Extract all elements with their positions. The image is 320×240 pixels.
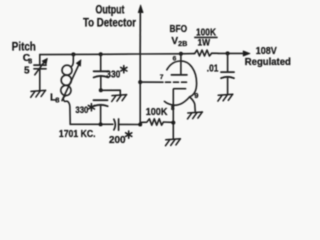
svg-text:To Detector: To Detector [83,16,136,30]
svg-text:8: 8 [55,95,59,104]
svg-text:9: 9 [194,91,198,100]
svg-text:1W: 1W [198,37,211,48]
svg-text:6: 6 [173,56,177,63]
label 100K (grid leak) [146,107,168,118]
arrow output to detector [139,13,141,55]
node junction plate/top rail [179,52,183,56]
label 330* upper [106,69,120,80]
svg-text:BFO: BFO [170,24,188,35]
capacitor .01 (bypass) [227,53,229,71]
ground (divider midpoint) [112,95,127,102]
label BFO [170,24,188,35]
node junction cathode/grid leak [171,121,175,125]
label 108V [256,46,277,57]
ground (cathode) [166,139,181,146]
wire divider midpoint to ground [101,90,121,95]
label 5 [24,66,30,77]
label pin 7 [160,74,164,81]
resistor 100K 1W (plate supply) [194,50,218,56]
svg-text:7: 7 [160,74,164,81]
wire grid to tube [140,81,163,83]
ground (.01 bypass) [218,94,233,101]
label L8 [50,92,59,104]
svg-text:2B: 2B [178,39,187,48]
label pin 9 [194,91,198,100]
svg-text:5: 5 [24,66,30,77]
svg-text:330: 330 [106,69,120,80]
svg-text:1701 KC.: 1701 KC. [59,129,96,140]
wire top rail node A [40,54,194,55]
svg-text:100K: 100K [146,107,168,118]
label pin 6 [173,56,177,63]
arrow 108V [243,51,250,56]
capacitor 330* lower (divider bottom) [94,99,108,101]
cathode (pin 8) [173,89,185,139]
svg-text:200: 200 [109,135,126,146]
node junction divider bottom [99,122,103,126]
svg-text:.01: .01 [207,64,219,75]
svg-text:8: 8 [171,105,175,112]
label V2B [171,36,187,48]
label .01 [207,64,219,75]
label To Detector [83,16,136,30]
svg-text:Regulated: Regulated [245,57,291,68]
node junction L8/top rail [71,52,75,56]
svg-text:108V: 108V [256,46,277,57]
label 330* lower [75,105,88,116]
ground (pin 9) [188,112,203,119]
label C8 [23,53,33,65]
resistor 100K (grid leak) [140,119,173,125]
label Output [96,3,125,16]
node junction divider midpoint [99,88,103,92]
wire resistor to B+ junction [218,52,243,54]
node junction divider/top rail [99,52,103,56]
wire bottom rail left [70,123,113,125]
node junction B+ [226,51,230,55]
label pin 8 [171,105,175,112]
capacitor 200* (grid coupling, series) [114,119,115,130]
label 1W [198,37,211,48]
node junction grid [138,80,142,84]
label Pitch [12,40,36,54]
ground (C8) [31,90,46,97]
svg-text:8: 8 [28,59,32,66]
label 1701 KC. [59,129,96,140]
grid electrode (dashed) pin 7 [166,81,187,83]
label Regulated [245,57,291,68]
svg-text:Pitch: Pitch [12,40,36,54]
svg-text:330: 330 [75,105,88,116]
fraction line [195,36,217,38]
pin 9 lead [190,97,196,112]
capacitor 330* upper (divider top) [100,54,102,71]
node junction grid leak [138,123,142,127]
plate (pin 6) [180,54,182,75]
label 100K (plate) [196,27,217,38]
wire grid riser [139,13,141,125]
label 200* [109,135,126,146]
tube V2B envelope [164,61,196,105]
wire bottom rail right [119,123,141,125]
svg-text:Output: Output [96,3,125,16]
capacitor C8 (variable, pitch trim) [39,55,41,65]
inductor L8 (adjustable) [71,54,73,66]
